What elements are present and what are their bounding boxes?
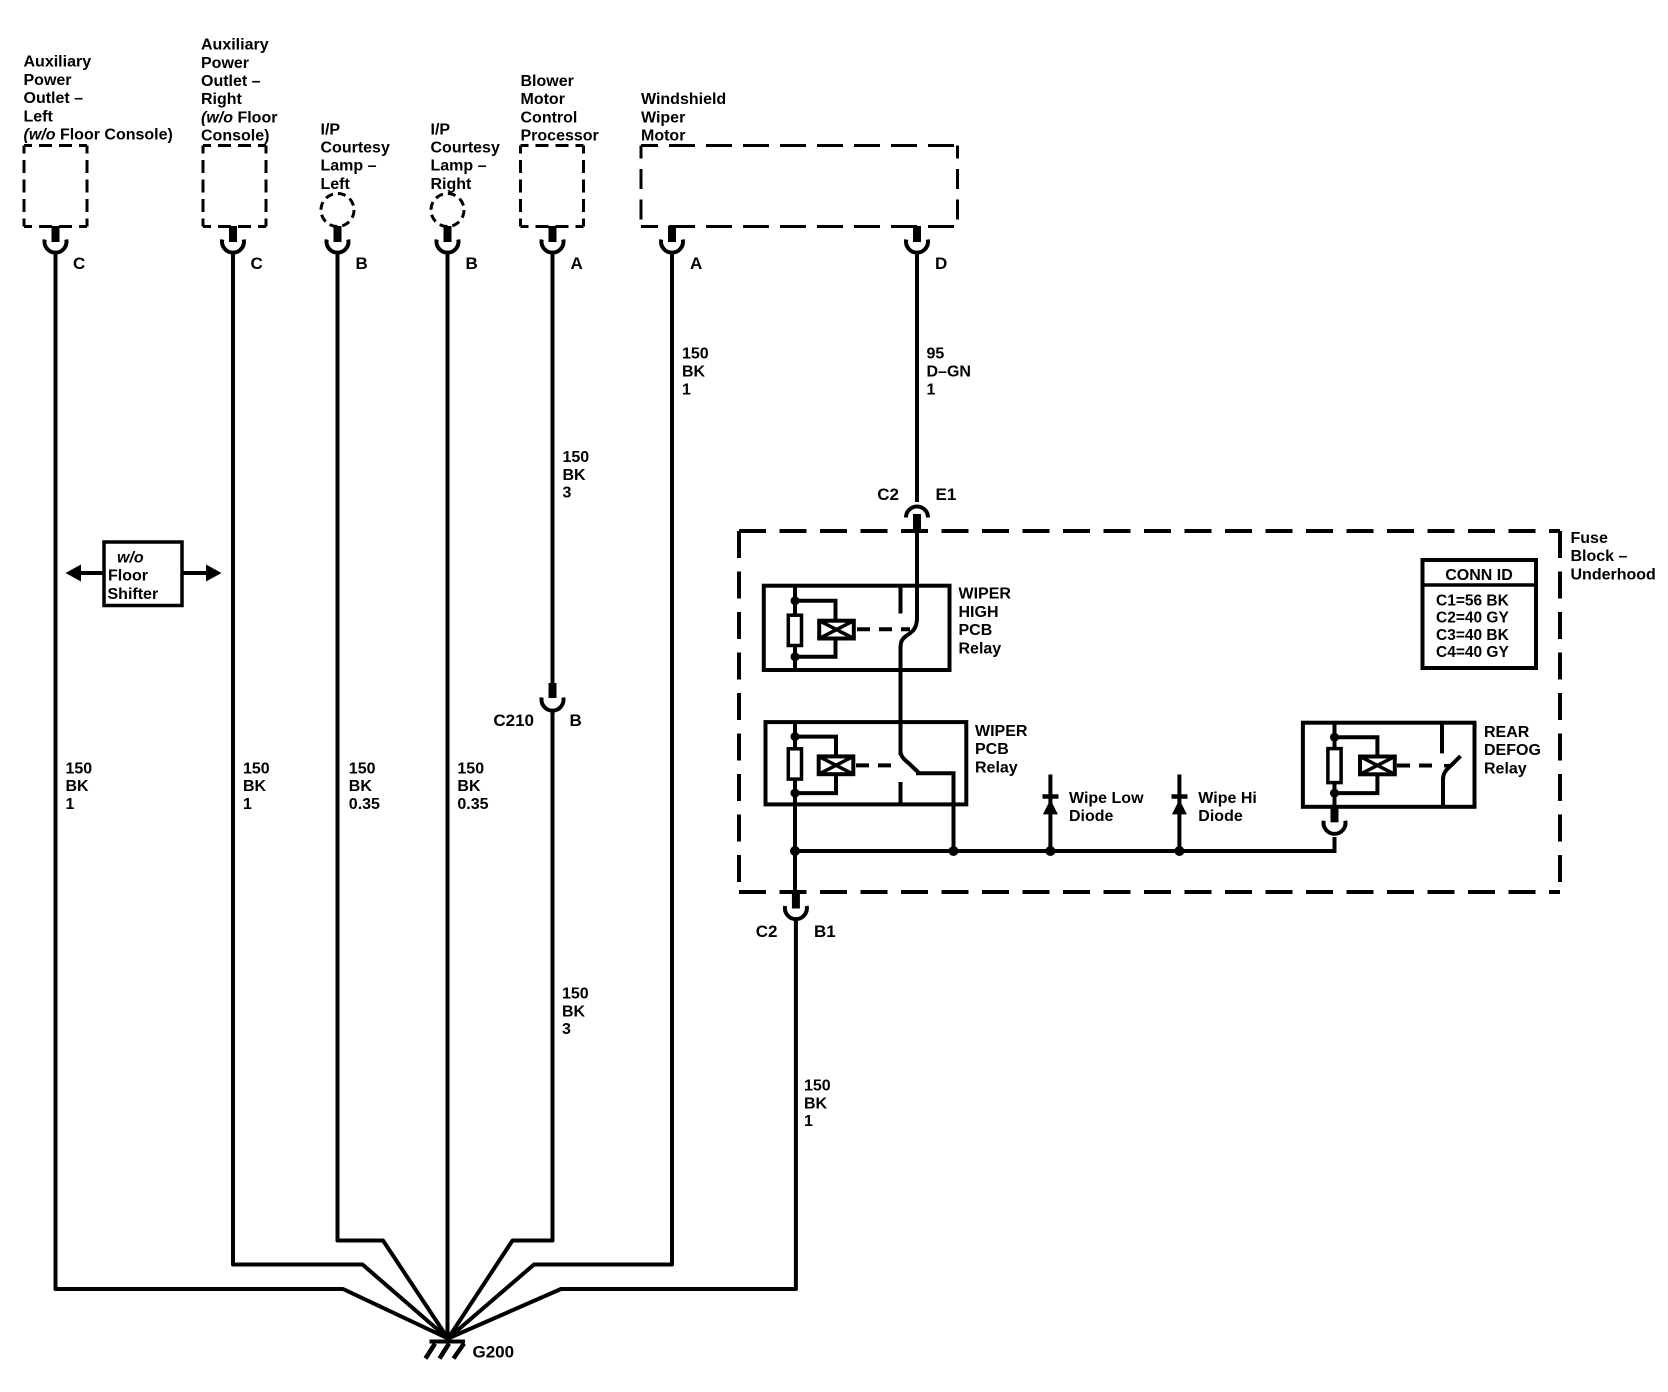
node: bus junction at coil line — [790, 846, 800, 856]
ground G200 bar — [430, 1340, 466, 1344]
diode: Wipe Hi Diode triangle — [1172, 800, 1187, 815]
component label: Blower Motor Control Processor — [521, 73, 599, 145]
relay K3 label — [1484, 724, 1541, 777]
svg-text:Block –: Block – — [1571, 548, 1628, 565]
inline connector C2/B1 stub — [792, 894, 800, 909]
svg-text:C1=56 BK: C1=56 BK — [1436, 592, 1510, 609]
component: Blower Motor Control Processor dashed box — [521, 146, 584, 227]
svg-text:Wiper: Wiper — [641, 109, 685, 126]
svg-text:150: 150 — [682, 346, 709, 363]
component: I/P Courtesy Lamp - Right dashed circle — [431, 194, 464, 227]
relay K1: WIPER HIGH PCB Relay box — [764, 586, 950, 670]
svg-text:150: 150 — [804, 1078, 831, 1095]
CONN ID table frame — [1423, 560, 1537, 668]
arrow left from w/o Floor Shifter box — [78, 571, 104, 575]
svg-text:B: B — [570, 711, 582, 730]
svg-text:DEFOG: DEFOG — [1484, 742, 1541, 759]
svg-text:Auxiliary: Auxiliary — [201, 37, 269, 54]
svg-text:C210: C210 — [493, 711, 534, 730]
svg-text:C: C — [251, 254, 263, 273]
connector cup: Lamp Right — [437, 240, 459, 253]
svg-text:(w/o Floor: (w/o Floor — [201, 109, 277, 126]
svg-text:D–GN: D–GN — [927, 364, 971, 381]
svg-text:Motor: Motor — [521, 91, 565, 108]
svg-text:Wipe Low: Wipe Low — [1069, 790, 1144, 807]
svg-text:C: C — [73, 254, 85, 273]
wire label 150 BK 1 (wire 6) — [682, 346, 709, 399]
connector stub: Aux Outlet Right — [229, 226, 237, 242]
svg-text:A: A — [690, 254, 702, 273]
svg-text:0.35: 0.35 — [457, 796, 488, 813]
connector stub: Aux Outlet Left — [52, 226, 60, 242]
svg-text:Shifter: Shifter — [108, 586, 159, 603]
svg-text:w/o: w/o — [117, 549, 144, 566]
svg-text:150: 150 — [457, 760, 484, 777]
component: Windshield Wiper Motor dashed box — [641, 146, 958, 227]
wire label 95 D-GN 1 (wire 7) — [927, 346, 971, 399]
svg-text:CONN ID: CONN ID — [1445, 567, 1513, 584]
node: WIPER PCB coil top junction — [791, 732, 800, 741]
wire: I/P Courtesy Lamp Right pin B to ground (straight) — [446, 255, 450, 1341]
node: bus junction at switch output — [949, 846, 959, 856]
svg-text:B: B — [356, 254, 368, 273]
node: bus junction at Wipe Low Diode — [1045, 846, 1055, 856]
wire label 150 BK 1 (wire 2) — [243, 760, 270, 813]
svg-text:150: 150 — [349, 760, 376, 777]
component label: Auxiliary Power Outlet - Left — [24, 54, 173, 144]
svg-text:3: 3 — [563, 485, 572, 502]
node: bus junction at Wipe Hi Diode — [1174, 846, 1184, 856]
wire: C210 pin B to ground splice — [448, 711, 553, 1339]
connector cup: Blower Motor Control Processor — [542, 240, 564, 253]
svg-text:Fuse: Fuse — [1571, 530, 1608, 547]
svg-text:Windshield: Windshield — [641, 91, 726, 108]
connector stub: Blower Motor Control Processor — [549, 226, 557, 242]
wire: C2/B1 to ground splice — [448, 919, 796, 1339]
svg-text:Left: Left — [321, 176, 351, 193]
svg-text:BK: BK — [349, 778, 373, 795]
wire: ground bus inside fuse block — [795, 837, 1335, 851]
svg-text:Processor: Processor — [521, 128, 599, 145]
svg-text:3: 3 — [562, 1021, 571, 1038]
connector stub: Lamp Right — [444, 226, 452, 242]
svg-text:BK: BK — [804, 1095, 828, 1112]
svg-text:BK: BK — [563, 467, 587, 484]
wire label 150 BK 1 (wire 7 lower) — [804, 1078, 831, 1131]
wire: WIPER HIGH coil loop — [795, 601, 836, 657]
node: REAR DEFOG coil bottom junction — [1330, 789, 1339, 798]
wire label 150 BK 3 (wire 5 upper) — [563, 449, 590, 502]
coil (solenoid) of WIPER PCB relay — [819, 756, 854, 774]
svg-text:E1: E1 — [936, 485, 957, 504]
node: REAR DEFOG coil top junction — [1330, 733, 1339, 742]
svg-text:0.35: 0.35 — [349, 796, 380, 813]
component label: I/P Courtesy Lamp - Left — [321, 121, 390, 193]
svg-text:BK: BK — [682, 364, 706, 381]
relay K3: REAR DEFOG Relay box — [1303, 723, 1475, 807]
svg-text:HIGH: HIGH — [959, 604, 999, 621]
svg-text:Wipe Hi: Wipe Hi — [1198, 790, 1257, 807]
resistor in WIPER HIGH relay — [788, 615, 801, 645]
connector cup: Aux Outlet Left — [45, 240, 67, 253]
svg-text:BK: BK — [66, 778, 90, 795]
svg-text:C2=40 GY: C2=40 GY — [1436, 610, 1509, 627]
svg-text:PCB: PCB — [975, 741, 1009, 758]
diode: Wipe Hi Diode cathode bar — [1172, 794, 1188, 799]
svg-text:(w/o Floor Console): (w/o Floor Console) — [24, 127, 173, 144]
svg-text:C2: C2 — [756, 922, 778, 941]
wire label 150 BK 1 (wire 1) — [66, 760, 93, 813]
CONN ID rows — [1436, 592, 1510, 661]
diode label: Wipe Hi Diode — [1198, 790, 1257, 825]
wire: Aux Outlet Right pin C to ground splice — [233, 255, 448, 1339]
inline connector C210 stub — [549, 683, 557, 698]
svg-text:C2: C2 — [877, 485, 899, 504]
coil (solenoid) of WIPER HIGH relay — [819, 621, 854, 639]
svg-text:Console): Console) — [201, 128, 269, 145]
node: WIPER PCB coil bottom junction — [791, 789, 800, 798]
connector cup: Aux Outlet Right — [222, 240, 244, 253]
wire: Wiper Motor pin D down to connector C2/E1 — [915, 255, 919, 503]
svg-text:150: 150 — [563, 449, 590, 466]
wire: I/P Courtesy Lamp Left pin B to ground splice — [338, 255, 449, 1339]
wire: WIPER HIGH coil branch line — [793, 586, 797, 670]
arrow right from w/o Floor Shifter box — [182, 571, 208, 575]
svg-text:150: 150 — [66, 760, 93, 777]
CONN ID table header separator — [1423, 583, 1537, 587]
svg-text:I/P: I/P — [431, 121, 451, 138]
wire: WIPER PCB coil loop — [795, 737, 836, 794]
component: Auxiliary Power Outlet - Left dashed box — [24, 146, 87, 227]
wire: WIPER PCB switch output to bus — [916, 773, 954, 851]
connector stub: Wiper Motor pin A — [668, 226, 676, 242]
svg-text:Lamp –: Lamp – — [431, 158, 487, 175]
diode: Wipe Hi Diode lead — [1177, 775, 1181, 852]
relay K1 label — [959, 586, 1012, 658]
component label: I/P Courtesy Lamp - Right — [431, 121, 500, 193]
switch blade hook tick (REAR DEFOG) — [1444, 764, 1451, 768]
inline connector C2/E1 dome — [906, 507, 928, 518]
svg-text:1: 1 — [927, 381, 936, 398]
switch fixed contact in WIPER HIGH relay — [899, 586, 903, 614]
switch blade of WIPER HIGH relay — [901, 618, 918, 649]
connector stub: Wiper Motor pin D — [913, 226, 921, 242]
svg-text:Outlet –: Outlet – — [24, 90, 84, 107]
wire: Wiper Motor pin A to ground splice — [448, 255, 672, 1339]
svg-text:1: 1 — [66, 796, 75, 813]
wire: REAR DEFOG coil branch line — [1333, 723, 1337, 807]
svg-text:Left: Left — [24, 108, 54, 125]
actuator dashed link in WIPER HIGH relay — [857, 627, 910, 631]
svg-text:Courtesy: Courtesy — [321, 140, 390, 157]
svg-text:Diode: Diode — [1069, 808, 1114, 825]
connector stub below REAR DEFOG relay — [1331, 807, 1339, 823]
svg-text:1: 1 — [243, 796, 252, 813]
svg-text:Diode: Diode — [1198, 808, 1243, 825]
component: Auxiliary Power Outlet - Right dashed box — [203, 146, 266, 227]
switch common in REAR DEFOG relay (from bottom) — [1441, 778, 1445, 807]
relay K2: WIPER PCB Relay box — [766, 722, 967, 804]
switch fixed contact in REAR DEFOG relay (from top) — [1440, 723, 1444, 754]
component label: Windshield Wiper Motor — [641, 91, 726, 144]
relay K2 label — [975, 723, 1028, 776]
svg-text:Relay: Relay — [975, 759, 1018, 776]
svg-text:Right: Right — [201, 91, 243, 108]
inline connector C2/E1 stub — [913, 514, 921, 531]
svg-text:150: 150 — [562, 986, 589, 1003]
wire: relay common from C2/E1 into WIPER HIGH switch — [915, 529, 919, 620]
diode: Wipe Low Diode lead — [1048, 775, 1052, 852]
svg-text:WIPER: WIPER — [975, 723, 1028, 740]
actuator dashed link in REAR DEFOG relay — [1397, 764, 1440, 768]
svg-text:Outlet –: Outlet – — [201, 73, 261, 90]
svg-text:Floor: Floor — [108, 568, 148, 585]
connector cup: Lamp Left — [327, 240, 349, 253]
switch blade of REAR DEFOG relay — [1443, 756, 1461, 780]
resistor in WIPER PCB relay — [788, 749, 801, 779]
svg-text:BK: BK — [243, 778, 267, 795]
svg-text:Right: Right — [431, 176, 473, 193]
diode: Wipe Low Diode triangle — [1043, 800, 1058, 815]
component label: Auxiliary Power Outlet - Right — [201, 37, 277, 145]
wire: Blower pin A down to connector C210 — [551, 255, 555, 684]
svg-text:Motor: Motor — [641, 128, 685, 145]
svg-text:150: 150 — [243, 760, 270, 777]
diode: Wipe Low Diode cathode bar — [1043, 794, 1059, 799]
svg-text:WIPER: WIPER — [959, 586, 1012, 603]
svg-text:Auxiliary: Auxiliary — [24, 54, 92, 71]
wire: Aux Outlet Left pin C to ground splice — [56, 255, 449, 1339]
node: WIPER HIGH coil bottom junction — [791, 652, 800, 661]
switch fixed contact in WIPER PCB relay — [899, 782, 903, 804]
svg-text:C4=40 GY: C4=40 GY — [1436, 644, 1509, 661]
svg-text:I/P: I/P — [321, 121, 341, 138]
wire: WIPER PCB coil branch line (continues to C2/B1) — [793, 722, 797, 894]
svg-text:B: B — [466, 254, 478, 273]
wire: REAR DEFOG coil loop — [1335, 737, 1378, 793]
option box: w/o Floor Shifter — [104, 542, 182, 606]
svg-text:REAR: REAR — [1484, 724, 1530, 741]
fuse block underhood dashed border — [739, 531, 1560, 892]
svg-text:Courtesy: Courtesy — [431, 140, 500, 157]
coil (solenoid) of REAR DEFOG relay — [1360, 757, 1395, 775]
svg-text:1: 1 — [804, 1113, 813, 1130]
connector cup: Wiper Motor pin A — [661, 240, 683, 253]
svg-text:Power: Power — [24, 72, 72, 89]
svg-text:Underhood: Underhood — [1571, 566, 1656, 583]
svg-text:Control: Control — [521, 109, 578, 126]
actuator dashed link in WIPER PCB relay — [856, 763, 898, 767]
connector stub: Lamp Left — [334, 226, 342, 242]
wire: WIPER HIGH switch output down to WIPER PCB relay — [899, 646, 903, 755]
svg-text:A: A — [571, 254, 583, 273]
wire label 150 BK 3 (wire 5 lower) — [562, 986, 589, 1039]
connector cup below REAR DEFOG relay — [1324, 821, 1346, 834]
switch blade of WIPER PCB relay — [901, 752, 919, 773]
svg-text:C3=40 BK: C3=40 BK — [1436, 627, 1510, 644]
svg-text:D: D — [935, 254, 947, 273]
wire label 150 BK 0.35 (wire 4) — [457, 760, 488, 813]
svg-text:Relay: Relay — [959, 640, 1002, 657]
node: WIPER HIGH coil top junction — [791, 596, 800, 605]
svg-text:B1: B1 — [814, 922, 836, 941]
svg-text:Relay: Relay — [1484, 760, 1527, 777]
svg-text:95: 95 — [927, 346, 945, 363]
svg-text:Power: Power — [201, 55, 249, 72]
resistor in REAR DEFOG relay — [1328, 749, 1341, 783]
inline connector C210 cup — [542, 698, 564, 711]
svg-text:BK: BK — [562, 1003, 586, 1020]
svg-text:G200: G200 — [473, 1343, 515, 1362]
wire label 150 BK 0.35 (wire 3) — [349, 760, 380, 813]
connector cup: Wiper Motor pin D — [906, 240, 928, 253]
svg-text:Lamp –: Lamp – — [321, 158, 377, 175]
inline connector C2/B1 cup — [785, 906, 807, 919]
svg-text:1: 1 — [682, 381, 691, 398]
svg-text:Blower: Blower — [521, 73, 574, 90]
diode label: Wipe Low Diode — [1069, 790, 1144, 825]
svg-text:BK: BK — [457, 778, 481, 795]
svg-text:PCB: PCB — [959, 622, 993, 639]
ground G200 hatch strokes — [426, 1344, 465, 1359]
fuse block label: Fuse Block - Underhood — [1571, 530, 1656, 583]
component: I/P Courtesy Lamp - Left dashed circle — [321, 194, 354, 227]
